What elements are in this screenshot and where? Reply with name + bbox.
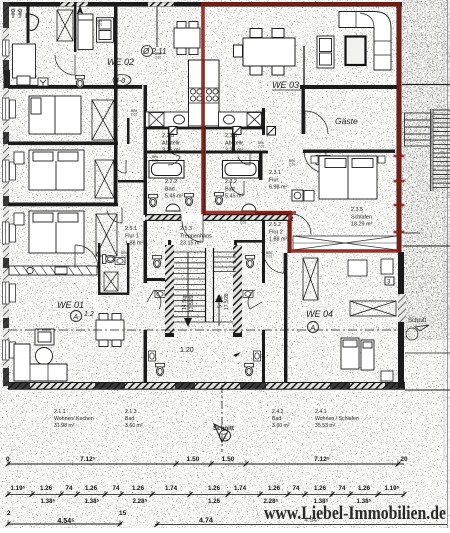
tv bench X WE04	[350, 301, 396, 316]
svg-text:Bad: Bad	[165, 186, 175, 192]
counter slash	[23, 266, 29, 275]
wall v x285 WE04 left	[284, 253, 287, 382]
svg-text:1.74: 1.74	[165, 485, 178, 492]
counter slash	[86, 266, 92, 275]
counter slash	[14, 266, 20, 275]
svg-text:Schlafen: Schlafen	[351, 214, 372, 220]
north arrow mark	[77, 6, 83, 14]
dining table WE03	[234, 29, 296, 76]
door arc treppenhaus entry	[182, 221, 203, 242]
svg-text:WE 01: WE 01	[57, 300, 84, 310]
svg-text:1.50: 1.50	[222, 456, 235, 463]
bottom wall solid chunk	[175, 383, 195, 389]
svg-text:2.01: 2.01	[131, 112, 137, 116]
wall h wc right top	[237, 240, 265, 243]
nightstand room3	[14, 152, 24, 164]
wall h y143 left wing	[8, 142, 118, 146]
door arc WE03 abstell	[238, 156, 250, 165]
top wall window hatch 2	[148, 2, 174, 6]
bottom wall solid chunk	[240, 383, 266, 389]
svg-text:1.20: 1.20	[180, 347, 194, 354]
double bed WE03 schlafen	[319, 156, 377, 199]
wall v x169 abstell WE02	[168, 128, 171, 152]
svg-text:74: 74	[339, 485, 346, 492]
toilet wc lower-left	[156, 364, 165, 376]
wall v x204 apartment separator	[203, 126, 206, 214]
wall v x235 stairwell right	[234, 240, 237, 283]
svg-text:2.01: 2.01	[289, 162, 295, 166]
box 3 WE04	[385, 277, 394, 285]
external stair top lines	[402, 84, 450, 86]
svg-text:15: 15	[119, 510, 127, 517]
svg-text:2.5.2: 2.5.2	[269, 222, 281, 228]
toilet wc lower-right	[245, 364, 254, 376]
svg-text:4.74: 4.74	[199, 516, 213, 525]
svg-text:18.29 m²: 18.29 m²	[351, 222, 372, 228]
sink with Y top-left	[38, 78, 48, 86]
bed small room top-left (vertical)	[13, 44, 36, 85]
toilet WE02 bad	[149, 195, 158, 207]
L sofa WE01	[14, 344, 67, 381]
svg-text:2.01: 2.01	[121, 254, 127, 258]
tiny glyphs small room	[11, 9, 26, 18]
svg-text:17,5/28: 17,5/28	[224, 293, 230, 310]
svg-text:1.88 m²: 1.88 m²	[269, 237, 287, 243]
svg-text:1.26: 1.26	[40, 485, 53, 492]
wall v x233 abstell WE03	[232, 128, 235, 152]
double bed WE02 room3	[29, 150, 84, 190]
wall h under kitchen y127	[145, 127, 263, 129]
terrace line right y390	[405, 389, 450, 391]
left wall solid chunk	[3, 196, 9, 206]
door gap treppenhaus	[181, 214, 203, 222]
wall h small x118-145 y180	[118, 180, 144, 183]
door arc WE04 entry	[265, 260, 284, 273]
beds WE04	[341, 338, 374, 370]
kitchen divider	[203, 60, 205, 126]
svg-text:Bad: Bad	[125, 416, 134, 422]
ext line y233	[403, 232, 420, 234]
table WE04 top	[348, 260, 367, 276]
door arc wc left	[154, 290, 161, 309]
page edge line	[447, 0, 449, 528]
wall h y151 bad WE03	[206, 151, 268, 154]
sink counter WE02	[146, 112, 189, 127]
door arc gaeste	[305, 111, 328, 134]
chair WE04	[381, 259, 393, 274]
nightstand room4	[14, 213, 24, 225]
svg-text:74: 74	[66, 485, 73, 492]
toilet flur WE02	[185, 194, 194, 206]
external staircase right: ladder rungs	[431, 109, 450, 191]
svg-text:WE 02: WE 02	[107, 57, 134, 67]
corridor wall edge bottom	[145, 220, 293, 221]
wall h y204 left wing	[8, 203, 118, 207]
svg-text:2.3.1: 2.3.1	[269, 170, 281, 176]
bottom wall top edge	[8, 382, 405, 384]
toilet WE03 bad	[215, 193, 224, 205]
dining table WE02	[174, 22, 200, 55]
left wall solid chunk	[3, 2, 9, 28]
svg-text:Abstellr.: Abstellr.	[162, 140, 181, 146]
wall v x260 right of tub WE03	[259, 153, 263, 180]
svg-text:Abstellr.: Abstellr.	[225, 140, 244, 146]
stair arrow down-left flight	[187, 252, 189, 318]
door arc WE02 abstell	[168, 156, 180, 165]
left wall solid chunk	[3, 258, 9, 268]
wall v x289 flur2 right	[288, 213, 291, 253]
counter slash	[41, 266, 47, 275]
wall v x128 y118	[127, 118, 130, 144]
kitchen shelf line2	[189, 102, 220, 104]
left wall solid chunk	[3, 318, 9, 328]
svg-text:2.3.5: 2.3.5	[351, 207, 363, 213]
balcony cross band	[293, 236, 397, 250]
svg-text:2.01: 2.01	[96, 22, 102, 26]
svg-text:14 Stg.: 14 Stg.	[182, 294, 188, 310]
closet schlafen top	[316, 156, 330, 165]
outer wall right lower	[398, 252, 404, 388]
outer wall bottom hatched	[8, 383, 405, 390]
wardrobe X top-left	[57, 10, 73, 41]
dimension row 1	[8, 463, 404, 465]
storage door symbol WE03	[233, 127, 241, 135]
corridor wall hatched y214	[145, 214, 293, 221]
storage door symbol WE02	[169, 127, 177, 135]
toilet WE02 small wc	[76, 76, 85, 88]
svg-text:2.2.2: 2.2.2	[165, 179, 177, 185]
svg-text:1.26: 1.26	[208, 485, 221, 492]
wall v x145 to bottom	[144, 330, 148, 382]
svg-text:1.19⁵: 1.19⁵	[385, 485, 400, 492]
section line A-A horizontal	[8, 329, 404, 331]
sink wc left	[155, 291, 165, 298]
corner sofa WE03	[339, 12, 391, 71]
svg-text:2.01: 2.01	[266, 254, 272, 258]
svg-text:2.2.3: 2.2.3	[162, 133, 174, 139]
bottom wall bottom edge	[8, 388, 405, 390]
svg-text:5 Stg.: 5 Stg.	[218, 295, 224, 308]
counter slash	[32, 266, 38, 275]
kitchen shelf line	[189, 87, 220, 89]
shower X WE01	[104, 272, 118, 291]
svg-text:3.60 m²: 3.60 m²	[125, 423, 143, 429]
svg-text:WE 04: WE 04	[306, 309, 333, 319]
wall v x128 WE01 bath right	[127, 243, 129, 295]
wall h y87 left wing	[8, 85, 142, 89]
stair arrow up-right flight	[218, 302, 220, 326]
counter slash	[77, 266, 83, 275]
stair treads left flight	[174, 252, 233, 322]
svg-text:1.38⁵: 1.38⁵	[41, 498, 56, 505]
svg-text:Wohnen / Schlafen: Wohnen / Schlafen	[315, 416, 359, 422]
door arc room3	[113, 160, 126, 173]
svg-text:2: 2	[7, 510, 11, 517]
wall v x145 corridor lower	[144, 221, 148, 283]
external staircase right: left box flight	[405, 113, 432, 146]
sink counter WE03	[219, 112, 262, 127]
svg-text:A: A	[73, 314, 79, 321]
door arc room1	[55, 55, 75, 75]
wall h y213 right of bad	[255, 212, 291, 215]
nightstand left	[311, 156, 318, 163]
svg-text:3.25 m²: 3.25 m²	[162, 148, 180, 154]
svg-text:35.53 m²: 35.53 m²	[315, 423, 336, 429]
svg-text:7.12⁵: 7.12⁵	[314, 456, 330, 463]
nightstand right	[378, 156, 385, 163]
svg-text:17,5/29: 17,5/29	[189, 295, 195, 312]
svg-text:7.12⁵: 7.12⁵	[80, 456, 96, 463]
svg-text:74: 74	[293, 485, 300, 492]
svg-text:Flur 2: Flur 2	[269, 229, 283, 235]
bathtub WE03	[223, 161, 259, 179]
wall v x263 right of counter	[262, 108, 265, 135]
round table WE01	[36, 348, 53, 365]
svg-text:1.26: 1.26	[132, 485, 145, 492]
svg-text:2.01: 2.01	[155, 55, 161, 59]
section line vertical bottom	[221, 385, 223, 452]
counter slash	[50, 266, 56, 275]
svg-text:Schnitt: Schnitt	[408, 318, 427, 324]
svg-text:A: A	[310, 325, 316, 332]
svg-text:2.4.1: 2.4.1	[315, 409, 327, 415]
wall h y151 left of bad WE02	[147, 151, 205, 154]
svg-text:WE 03: WE 03	[272, 80, 299, 90]
bottom wall solid chunk	[8, 383, 30, 389]
svg-text:Bad: Bad	[272, 416, 281, 422]
bottom wall solid chunk	[385, 383, 405, 389]
svg-text:5.45 m²: 5.45 m²	[165, 194, 183, 200]
double bed WE02 room2	[29, 96, 81, 134]
toilet wc right	[246, 256, 255, 268]
wall h y87 gaeste top	[300, 85, 401, 89]
svg-text:31.98 m²: 31.98 m²	[54, 423, 75, 429]
svg-text:2.28⁵: 2.28⁵	[133, 498, 148, 505]
wardrobe X room4	[96, 214, 117, 256]
wall h WE01 bath bottom	[98, 293, 129, 295]
door arc WE01 entry	[75, 245, 98, 268]
svg-text:23.15 m²: 23.15 m²	[180, 241, 201, 247]
sink semicircle WE03 bad	[242, 204, 256, 211]
wall v x145 corridor-left	[144, 85, 148, 215]
svg-text:www.Liebel-Immobilien.de: www.Liebel-Immobilien.de	[264, 503, 446, 524]
outer wall right upper	[397, 2, 402, 252]
toilet WE01 bad	[103, 255, 115, 264]
wall h y151 gaeste bottom	[303, 150, 395, 153]
outer wall top	[8, 2, 402, 7]
svg-text:6.98 m²: 6.98 m²	[269, 185, 287, 191]
dimension row 2 line	[8, 494, 404, 496]
page edge line 2	[443, 0, 445, 460]
kitchen counter strip	[189, 60, 220, 126]
left wall dark block y70	[4, 70, 11, 88]
door arc schlafen top	[304, 151, 326, 173]
radiators under windows left wall	[10, 100, 16, 118]
stair wall right	[233, 245, 242, 333]
svg-text:Wohnen/ Kochen: Wohnen/ Kochen	[54, 416, 94, 422]
thin wall x157	[156, 7, 158, 47]
small sofa WE03	[317, 36, 334, 68]
wall v x263 wc right	[262, 221, 265, 283]
toilet wc left	[153, 256, 162, 268]
fridge X WE03	[247, 113, 262, 127]
svg-text:74: 74	[113, 485, 120, 492]
stove burners WE02	[190, 89, 195, 94]
svg-text:1.26: 1.26	[358, 485, 371, 492]
square table WE01	[35, 329, 54, 345]
left wall solid chunk	[3, 132, 9, 144]
svg-text:2.5.1: 2.5.1	[125, 226, 137, 232]
svg-text:0: 0	[6, 456, 10, 463]
svg-text:1.26: 1.26	[85, 485, 98, 492]
beds WE02 room1 vertical	[78, 14, 114, 50]
corridor wall edge top	[145, 214, 293, 215]
terrace line right y353	[405, 352, 450, 354]
top wall window hatch 1	[60, 2, 88, 6]
svg-text:2.5.3: 2.5.3	[180, 226, 192, 232]
wall v small room top-left	[27, 5, 30, 43]
stair wall right bottom cap	[233, 333, 242, 337]
wardrobe X room3	[95, 160, 114, 198]
wall v x98 WE01 bath	[98, 243, 100, 295]
fridge X WE02	[149, 113, 164, 127]
sink wc lower-left	[149, 351, 156, 361]
stair wall left	[165, 245, 174, 333]
svg-text:1.74: 1.74	[234, 485, 247, 492]
red outline highlighted apartment WE03	[203, 4, 399, 251]
svg-text:1.2: 1.2	[84, 311, 94, 318]
svg-text:2.3.3: 2.3.3	[225, 133, 237, 139]
svg-text:Treppenhaus: Treppenhaus	[180, 233, 212, 239]
svg-text:1.88 m²: 1.88 m²	[125, 241, 143, 247]
dining table WE01	[96, 314, 124, 347]
svg-text:1.19⁵: 1.19⁵	[11, 485, 26, 492]
svg-text:1.50: 1.50	[187, 456, 200, 463]
svg-text:Flur: Flur	[269, 177, 278, 183]
svg-text:2.4.2: 2.4.2	[272, 409, 284, 415]
wall v x263 to bottom	[262, 330, 265, 382]
svg-text:2.1.1: 2.1.1	[54, 409, 66, 415]
bathtub WE02	[149, 161, 184, 179]
wall v x115 lower	[114, 89, 118, 206]
door arc WE03 bad	[230, 181, 244, 195]
svg-text:2.01: 2.01	[258, 144, 264, 148]
left wall solid chunk	[3, 368, 9, 386]
door curve small room	[30, 14, 39, 30]
door arc room4	[107, 211, 122, 223]
ext line y246	[403, 245, 450, 247]
thin wall x304 WE03 living	[303, 46, 305, 89]
door arc wc right	[248, 290, 255, 309]
svg-text:Gäste: Gäste	[335, 116, 358, 126]
right wall hatch section	[398, 294, 406, 322]
svg-text:2.01: 2.01	[240, 220, 246, 224]
svg-text:3.60 m²: 3.60 m²	[272, 423, 290, 429]
svg-text:Flur 1: Flur 1	[125, 233, 139, 239]
svg-text:2.3.2: 2.3.2	[225, 179, 237, 185]
stove burners WE03	[206, 89, 211, 94]
tv table WE03 (dark rect)	[346, 37, 366, 66]
wall v x75 room divider	[74, 2, 76, 52]
wardrobe X room2	[92, 100, 114, 140]
sink wc lower-right	[254, 351, 261, 361]
bottom wall solid chunk	[330, 383, 350, 389]
svg-text:1.38⁵: 1.38⁵	[85, 498, 100, 505]
svg-text:3.25 m²: 3.25 m²	[225, 148, 243, 154]
dryer WE03	[304, 191, 314, 202]
wall v x303 gaeste left	[302, 89, 305, 134]
sink wc right	[243, 291, 253, 298]
washer WE03	[292, 190, 303, 201]
bed WE01 room4	[29, 211, 84, 253]
svg-text:2: 2	[223, 434, 227, 441]
table WE04 bottom	[381, 371, 393, 381]
svg-text:1.26: 1.26	[314, 485, 327, 492]
wardrobe X WE04	[303, 258, 318, 300]
wall v x169 wc left	[168, 240, 171, 283]
sink semicircle WE02 bad	[166, 204, 180, 211]
counter slash	[68, 266, 74, 275]
svg-text:2.01: 2.01	[152, 158, 158, 162]
svg-text:1.26: 1.26	[268, 485, 281, 492]
door arc flur2 to schlafen	[291, 214, 311, 234]
counter slash	[59, 266, 65, 275]
entry door symbol WE03	[267, 127, 276, 136]
left wall solid chunk	[3, 60, 9, 74]
outer wall left hatched	[3, 2, 9, 389]
stair central divider	[206, 248, 214, 322]
svg-text:Bad: Bad	[225, 186, 235, 192]
stair treads right flight top	[214, 252, 236, 272]
svg-text:5.45 m²: 5.45 m²	[225, 194, 243, 200]
wall h wc left bottom	[147, 278, 171, 281]
svg-text:20: 20	[400, 456, 408, 463]
wall v bedroom right x115	[114, 6, 118, 89]
red tick marks on right edge	[394, 155, 405, 158]
sink WE01 bad	[115, 258, 125, 265]
bottom wall solid chunk	[95, 383, 125, 389]
stair wall left bottom cap	[165, 333, 174, 337]
svg-text:2.1.3: 2.1.3	[125, 409, 137, 415]
svg-text:1.26: 1.26	[208, 498, 221, 505]
counter WE01	[9, 266, 97, 275]
